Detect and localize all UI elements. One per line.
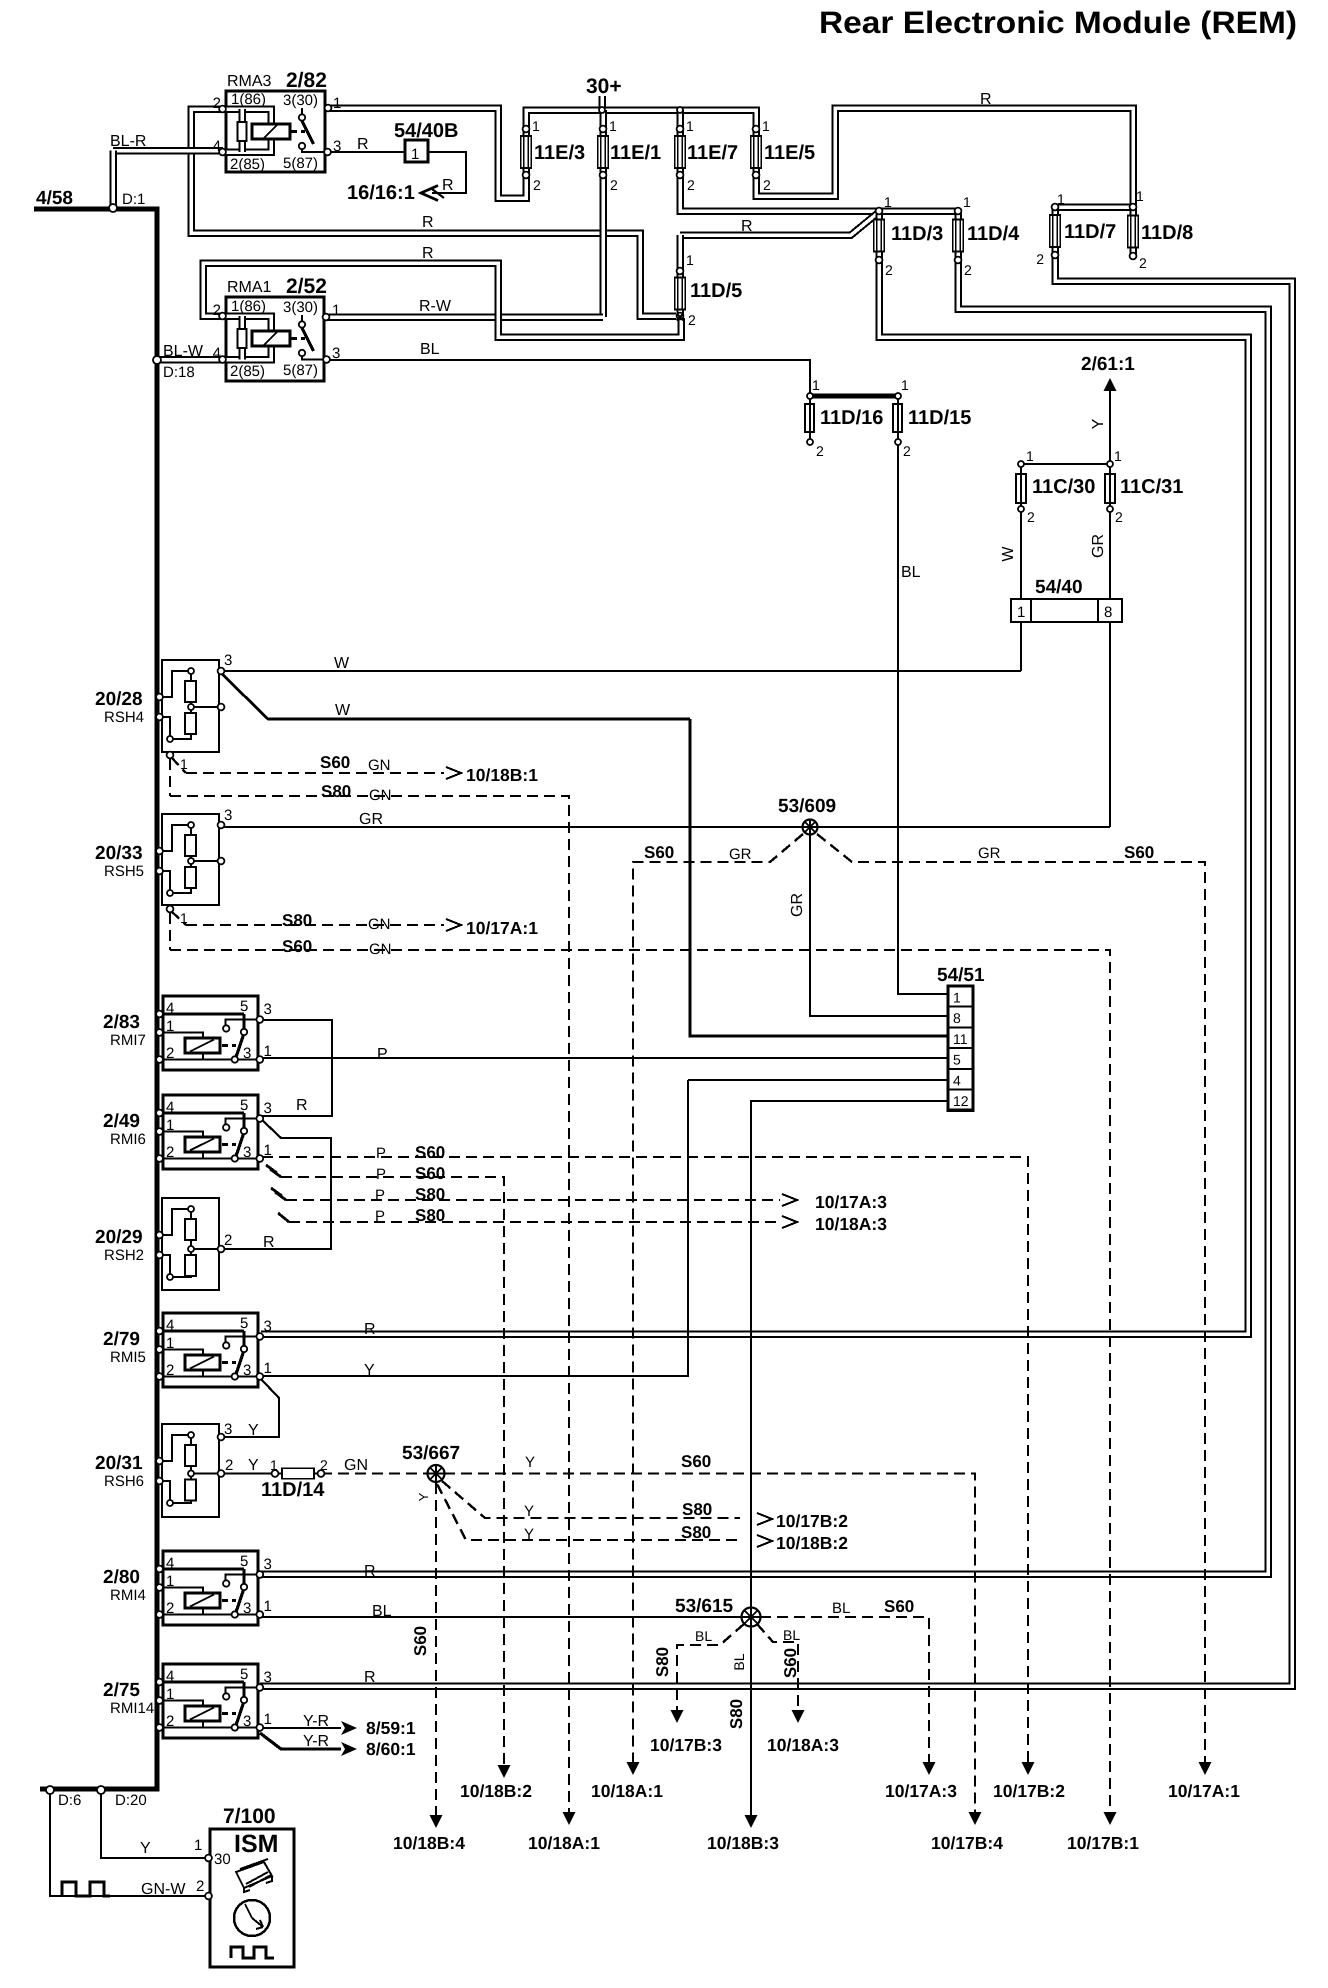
- svg-text:2: 2: [763, 177, 771, 193]
- svg-text:11E/1: 11E/1: [610, 142, 661, 164]
- svg-text:5(87): 5(87): [283, 362, 318, 379]
- svg-text:3(30): 3(30): [283, 299, 318, 316]
- wire dashed GN 11D/14 to 53/667: [321, 1472, 428, 1474]
- relay 2/82 RMA3 box: [226, 91, 325, 172]
- svg-text:S80: S80: [682, 1500, 712, 1519]
- svg-text:8/60:1: 8/60:1: [366, 1739, 416, 1759]
- wire GR below 54/40: [1109, 622, 1111, 827]
- module 7/100 ISM box: [210, 1829, 294, 1967]
- svg-text:2: 2: [225, 1457, 233, 1474]
- svg-text:R: R: [364, 1563, 376, 1580]
- svg-text:RMA3: RMA3: [227, 73, 272, 90]
- svg-text:1: 1: [884, 194, 892, 210]
- svg-text:R: R: [364, 1321, 376, 1338]
- svg-text:7/100: 7/100: [223, 1805, 276, 1828]
- svg-text:1: 1: [166, 1573, 174, 1590]
- wire GR 53/609 to 54/40 pin8: [810, 826, 1110, 828]
- svg-text:R: R: [364, 1669, 376, 1686]
- svg-text:1: 1: [963, 194, 971, 210]
- heater 20/28 pins: [188, 668, 194, 674]
- heater 20/28 resistors: [160, 671, 191, 697]
- svg-text:11D/14: 11D/14: [261, 1479, 325, 1501]
- svg-text:2: 2: [885, 262, 893, 278]
- node 53/615: [742, 1608, 761, 1627]
- relay 2/49 pins: [156, 1110, 163, 1117]
- svg-text:1: 1: [166, 1335, 174, 1352]
- wire 11D/7 through: [1051, 207, 1059, 256]
- svg-text:1: 1: [1057, 191, 1065, 207]
- wire Y to 2/61:1: [1109, 388, 1111, 464]
- svg-text:2: 2: [964, 262, 972, 278]
- wire dashed S80 GN from 20/28 pin1 drop: [169, 759, 171, 796]
- svg-text:3: 3: [224, 807, 232, 824]
- svg-text:11C/31: 11C/31: [1120, 476, 1183, 498]
- relay 2/52 pins: [219, 313, 226, 320]
- svg-text:1: 1: [264, 1711, 272, 1728]
- svg-text:1: 1: [264, 1043, 272, 1060]
- wire 11E/5 through: [752, 130, 760, 176]
- svg-text:1: 1: [609, 118, 617, 134]
- svg-text:1: 1: [270, 1457, 278, 1473]
- svg-text:10/18A:1: 10/18A:1: [528, 1833, 600, 1853]
- wire R-W relay 2/52 pin1: [326, 313, 603, 321]
- connector 54/51: [948, 986, 973, 1110]
- fuse 11D/3: [875, 221, 883, 251]
- svg-text:BL: BL: [832, 1600, 850, 1617]
- heater 20/33 RSH5 box: [162, 814, 219, 905]
- heater 20/31 RSH6 box: [162, 1424, 219, 1517]
- wire R 54/40B to 16/16:1: [428, 152, 466, 193]
- node D:6: [46, 1786, 54, 1794]
- svg-text:1: 1: [180, 910, 188, 926]
- svg-text:3(30): 3(30): [283, 92, 318, 109]
- svg-text:1: 1: [686, 118, 694, 134]
- svg-text:RMI6: RMI6: [110, 1131, 146, 1148]
- wire dashed P S60 from 2/49 pin1 to 10/17B:2: [262, 1157, 1028, 1762]
- svg-text:3: 3: [243, 1362, 251, 1379]
- wire R 2/49 to 20/29 pin2: [222, 1118, 331, 1249]
- wire BL-R horizontal: [113, 147, 223, 155]
- svg-text:2: 2: [687, 177, 695, 193]
- heater 20/29 RSH2 box: [162, 1198, 219, 1290]
- svg-text:1(86): 1(86): [231, 91, 266, 108]
- wire dashed P S80 from 2/49 to 10/17A:3: [271, 1188, 282, 1196]
- svg-text:P: P: [376, 1145, 386, 1162]
- svg-text:GR: GR: [1090, 534, 1107, 558]
- svg-text:5: 5: [240, 1666, 248, 1683]
- relay 2/49 switch: [226, 1119, 260, 1125]
- junction 11E/7 at bus: [677, 107, 683, 113]
- svg-text:10/17B:2: 10/17B:2: [993, 1781, 1065, 1801]
- connector 54/40: [1011, 599, 1122, 622]
- wire bar 11D/16 to 11D/15: [810, 394, 898, 399]
- svg-text:10/17B:1: 10/17B:1: [1067, 1833, 1139, 1853]
- junction 11D/5 pin2: [677, 314, 684, 321]
- wire R 11D/3 pin2 to relay 2/79: [261, 260, 1248, 1334]
- wire 11E/7 pin2 to 11D/3 11D/4: [680, 176, 958, 211]
- svg-text:1: 1: [264, 1598, 272, 1615]
- svg-text:2: 2: [1036, 251, 1044, 267]
- relay 2/79 pin4 row: [160, 1329, 244, 1332]
- wire dashed Y S60 from 53/667 to 10/17B:4: [444, 1474, 975, 1813]
- svg-text:10/17A:3: 10/17A:3: [815, 1192, 887, 1212]
- fuse 11D/16: [805, 404, 814, 432]
- fuse 11D/4: [954, 221, 962, 251]
- svg-text:W: W: [1000, 546, 1017, 562]
- svg-text:S60: S60: [415, 1164, 445, 1183]
- svg-text:2: 2: [224, 1232, 232, 1249]
- svg-text:53/667: 53/667: [402, 1443, 460, 1464]
- svg-text:54/40B: 54/40B: [394, 120, 459, 142]
- svg-text:5: 5: [240, 1553, 248, 1570]
- fuse 11E/7: [676, 137, 684, 167]
- svg-text:BL: BL: [783, 1627, 800, 1643]
- svg-text:3: 3: [264, 1556, 272, 1573]
- svg-text:D:20: D:20: [115, 1792, 147, 1809]
- wire W 11C/30 through: [1020, 464, 1022, 599]
- svg-text:GN-W: GN-W: [141, 1881, 186, 1898]
- svg-text:1: 1: [901, 377, 909, 393]
- svg-text:11E/7: 11E/7: [687, 142, 738, 164]
- svg-text:20/31: 20/31: [95, 1453, 143, 1474]
- fuse 11D/8: [1129, 217, 1137, 247]
- wire R 11D/4 pin2 to relay 2/80: [260, 260, 1268, 1574]
- wire dashed BL S80 from 53/615 to 10/17B:3: [677, 1624, 744, 1710]
- svg-text:11D/3: 11D/3: [891, 223, 943, 245]
- wire R 11D/5 pin1 riser: [680, 212, 879, 235]
- svg-text:W: W: [334, 655, 350, 672]
- svg-text:1: 1: [812, 377, 820, 393]
- svg-text:S60: S60: [320, 753, 350, 772]
- fuse 11E/3: [522, 137, 530, 167]
- svg-text:12: 12: [953, 1093, 969, 1109]
- relay 2/49 pin4 row: [160, 1111, 244, 1114]
- svg-text:BL: BL: [901, 564, 921, 581]
- svg-text:11D/7: 11D/7: [1064, 221, 1116, 243]
- svg-text:2: 2: [1027, 509, 1035, 525]
- svg-text:4: 4: [166, 1099, 174, 1116]
- svg-text:RSH2: RSH2: [104, 1247, 144, 1264]
- wire W below 54/40: [1020, 622, 1022, 671]
- svg-text:R: R: [422, 214, 434, 231]
- svg-text:53/609: 53/609: [778, 796, 836, 817]
- svg-text:1: 1: [333, 95, 341, 112]
- svg-text:Rear Electronic Module (REM): Rear Electronic Module (REM): [819, 5, 1297, 40]
- svg-text:D:6: D:6: [58, 1792, 81, 1809]
- svg-text:8: 8: [953, 1010, 961, 1026]
- wire 11E/1 pin2 down: [599, 176, 607, 317]
- svg-text:3: 3: [264, 1669, 272, 1686]
- wire 11E/3 through: [522, 130, 530, 176]
- svg-text:Y: Y: [416, 1492, 431, 1501]
- svg-text:10/17B:2: 10/17B:2: [776, 1511, 848, 1531]
- relay 2/79 pin2 row: [160, 1375, 259, 1377]
- svg-text:S60: S60: [415, 1143, 445, 1162]
- relay 2/49 coil: [160, 1132, 203, 1138]
- svg-text:10/18B:2: 10/18B:2: [776, 1533, 848, 1553]
- svg-text:P: P: [377, 1046, 388, 1063]
- relay 2/83 coil: [160, 1033, 203, 1039]
- svg-text:3: 3: [264, 1001, 272, 1018]
- svg-text:11D/8: 11D/8: [1141, 222, 1193, 244]
- svg-text:R: R: [741, 218, 753, 235]
- svg-text:10/18A:3: 10/18A:3: [767, 1735, 839, 1755]
- svg-text:S80: S80: [415, 1206, 445, 1225]
- heater 20/28 pin1: [167, 752, 174, 759]
- svg-text:3: 3: [333, 138, 341, 155]
- wire 4/58 feed: [34, 209, 157, 1789]
- svg-text:Y: Y: [248, 1457, 259, 1474]
- wire 11D/7 pin1 link: [1055, 203, 1133, 211]
- svg-text:1: 1: [411, 146, 419, 163]
- fuse 11D/7: [1051, 216, 1059, 246]
- svg-text:S60: S60: [681, 1452, 711, 1471]
- relay 2/80 switch: [226, 1575, 260, 1581]
- svg-text:P: P: [375, 1208, 385, 1225]
- svg-text:2: 2: [610, 177, 618, 193]
- wire bus to 11E/7: [676, 110, 684, 176]
- svg-text:5: 5: [953, 1052, 961, 1068]
- svg-text:S80: S80: [282, 911, 312, 930]
- wire dashed Y S80 from 53/667 to 10/17B:2: [442, 1481, 740, 1518]
- heater 20/33 resistors: [160, 825, 191, 851]
- svg-text:Y: Y: [364, 1362, 375, 1379]
- svg-text:GN: GN: [369, 787, 392, 804]
- svg-text:2: 2: [903, 443, 911, 459]
- wire W second from 20/28 pin3: [221, 673, 690, 719]
- wire BL-R drop to D:1: [109, 151, 117, 208]
- svg-text:10/17B:3: 10/17B:3: [650, 1735, 722, 1755]
- svg-text:10/18A:3: 10/18A:3: [815, 1214, 887, 1234]
- heater 20/29 pins: [188, 1206, 194, 1212]
- relay 2/80 pins: [156, 1566, 163, 1573]
- svg-text:R: R: [296, 1097, 308, 1114]
- svg-text:GN: GN: [344, 1457, 368, 1474]
- svg-text:1: 1: [166, 1117, 174, 1134]
- svg-text:1: 1: [166, 1018, 174, 1035]
- wire R relay 2/83 pin3 to 2/49 pin3: [260, 1020, 332, 1116]
- relay 2/79 coil: [160, 1350, 203, 1356]
- svg-text:GR: GR: [729, 846, 752, 863]
- wire dashed BL S60 from 53/615 to 10/17A:3: [760, 1617, 929, 1762]
- ISM cartridge icon: [236, 1859, 272, 1892]
- svg-text:R: R: [422, 245, 434, 262]
- svg-text:4: 4: [166, 1668, 174, 1685]
- svg-text:S60: S60: [644, 843, 674, 862]
- svg-text:RMI7: RMI7: [110, 1032, 146, 1049]
- wire R relay 2/82 pin1 to 11E/3 pin2: [329, 108, 526, 198]
- svg-text:3: 3: [264, 1100, 272, 1117]
- svg-text:4: 4: [166, 1317, 174, 1334]
- svg-text:20/33: 20/33: [95, 843, 143, 864]
- svg-text:11D/5: 11D/5: [690, 280, 742, 302]
- wire dashed P S60 from 2/49 to 10/18B:2: [266, 1165, 277, 1173]
- svg-text:2/61:1: 2/61:1: [1081, 354, 1135, 375]
- wire dashed Y S80 from 53/667 to 10/18B:2: [437, 1484, 742, 1540]
- svg-text:20/29: 20/29: [95, 1227, 143, 1248]
- svg-text:1: 1: [686, 252, 694, 268]
- node D:20: [97, 1786, 105, 1794]
- relay 2/79 RMI5 box: [163, 1313, 258, 1387]
- wire Y relay 2/79 pin1: [261, 1080, 688, 1376]
- svg-text:4: 4: [953, 1072, 961, 1088]
- relay 2/80 pin4 row: [160, 1567, 244, 1570]
- svg-text:1: 1: [532, 118, 540, 134]
- svg-text:Y: Y: [524, 1503, 534, 1520]
- relay 2/75 pin2 row: [160, 1726, 259, 1728]
- svg-text:3: 3: [264, 1318, 272, 1335]
- svg-text:2: 2: [196, 1878, 204, 1895]
- wire dashed P S80 from 2/49 to 10/18A:3: [278, 1213, 289, 1222]
- svg-text:2: 2: [166, 1600, 174, 1617]
- svg-text:BL: BL: [420, 341, 440, 358]
- svg-text:5: 5: [240, 998, 248, 1015]
- wire 11D/14 through: [275, 1472, 321, 1474]
- svg-text:10/18B:1: 10/18B:1: [466, 765, 538, 785]
- wire Y D:20 to ISM pin1: [101, 1791, 208, 1858]
- svg-text:Y: Y: [140, 1840, 151, 1857]
- svg-text:1: 1: [1017, 604, 1025, 621]
- svg-text:5: 5: [240, 1097, 248, 1114]
- wire 11D/3 through: [875, 211, 883, 260]
- svg-text:BL: BL: [731, 1653, 747, 1670]
- svg-text:W: W: [335, 702, 351, 719]
- junction 30+ at bus: [599, 107, 605, 113]
- svg-text:S60: S60: [884, 1597, 914, 1616]
- svg-text:GN: GN: [369, 941, 392, 958]
- svg-text:2/49: 2/49: [103, 1111, 140, 1132]
- svg-text:16/16:1: 16/16:1: [347, 182, 415, 204]
- square wave symbol on GN-W wire: [62, 1882, 110, 1896]
- wire dashed from 53/667 down to 10/18B:4: [435, 1483, 437, 1815]
- svg-text:5: 5: [240, 1315, 248, 1332]
- svg-text:1: 1: [1026, 448, 1034, 464]
- svg-text:5(87): 5(87): [283, 155, 318, 172]
- node 53/609: [803, 820, 818, 835]
- node 53/667: [428, 1465, 445, 1482]
- wire dashed S80 GN to 10/18A:1: [170, 796, 569, 1812]
- wire R 11E/5 pin2 to 11D/8: [756, 108, 1133, 207]
- svg-text:3: 3: [332, 345, 340, 362]
- relay 2/79 pins: [156, 1328, 163, 1335]
- wire dashed S60 GN to 10/17B:1: [170, 950, 1110, 1812]
- heater 20/29 resistors: [160, 1209, 191, 1235]
- svg-text:D:18: D:18: [163, 364, 195, 381]
- svg-text:GR: GR: [789, 893, 806, 917]
- svg-text:S80: S80: [681, 1523, 711, 1542]
- relay 2/83 RMI7 box: [163, 996, 258, 1070]
- svg-text:S60: S60: [282, 937, 312, 956]
- svg-text:R: R: [442, 177, 454, 194]
- svg-text:Y: Y: [525, 1454, 535, 1471]
- svg-text:54/51: 54/51: [937, 965, 985, 986]
- wire dashed S80 GN from 20/33 pin1: [171, 911, 186, 925]
- wire dashed S60 GR from 53/609 right to 10/17A:1: [817, 834, 1205, 1762]
- svg-text:30+: 30+: [586, 75, 622, 98]
- svg-text:1: 1: [194, 1837, 202, 1854]
- svg-text:10/17A:3: 10/17A:3: [885, 1781, 957, 1801]
- svg-text:S80: S80: [653, 1647, 672, 1677]
- svg-text:4: 4: [213, 138, 221, 155]
- svg-text:11D/16: 11D/16: [820, 407, 883, 429]
- wire Y 2/79 to 20/31 pin3: [221, 1379, 279, 1437]
- svg-text:2: 2: [166, 1362, 174, 1379]
- svg-text:2: 2: [166, 1713, 174, 1730]
- svg-text:4/58: 4/58: [36, 188, 73, 209]
- wire GN-W D:6 to ISM pin2: [50, 1791, 208, 1896]
- wire BL 11D/15 pin2 to 54/51 pin1: [898, 442, 948, 994]
- svg-text:1: 1: [1114, 448, 1122, 464]
- svg-text:2: 2: [213, 302, 221, 319]
- svg-text:1: 1: [953, 990, 961, 1006]
- svg-text:2: 2: [1115, 509, 1123, 525]
- svg-text:53/615: 53/615: [675, 1596, 734, 1617]
- svg-text:2/83: 2/83: [103, 1012, 140, 1033]
- svg-text:10/18B:3: 10/18B:3: [707, 1833, 779, 1853]
- svg-text:3: 3: [224, 652, 232, 669]
- relay 2/49 RMI6 box: [163, 1095, 258, 1169]
- svg-text:10/18B:2: 10/18B:2: [460, 1781, 532, 1801]
- svg-text:BL-W: BL-W: [163, 343, 204, 360]
- relay 2/52 internals: [226, 316, 271, 333]
- svg-text:RSH4: RSH4: [104, 709, 144, 726]
- svg-text:2: 2: [320, 1457, 328, 1473]
- svg-text:8/59:1: 8/59:1: [366, 1718, 416, 1738]
- svg-text:ISM: ISM: [234, 1830, 278, 1858]
- svg-text:11E/3: 11E/3: [534, 142, 585, 164]
- svg-text:R: R: [980, 91, 992, 108]
- wire BL-W: [157, 356, 223, 364]
- svg-text:30: 30: [214, 1851, 231, 1868]
- svg-text:1: 1: [762, 118, 770, 134]
- svg-text:2/75: 2/75: [103, 1680, 140, 1701]
- svg-text:2: 2: [213, 95, 221, 112]
- svg-text:2(85): 2(85): [230, 156, 265, 173]
- svg-text:11: 11: [953, 1031, 968, 1047]
- svg-text:RMA1: RMA1: [227, 279, 272, 296]
- wire S80 through 53/615 down: [750, 1625, 752, 1818]
- svg-text:RMI14: RMI14: [110, 1700, 154, 1717]
- svg-text:10/17A:1: 10/17A:1: [466, 918, 538, 938]
- relay 2/52 RMA1 box: [226, 297, 324, 381]
- svg-text:BL: BL: [695, 1628, 712, 1644]
- connector 54/40B: [405, 140, 428, 162]
- svg-text:10/17B:4: 10/17B:4: [931, 1833, 1003, 1853]
- svg-text:8: 8: [1104, 604, 1112, 621]
- wire GR 20/33 pin3 to 53/609: [221, 826, 810, 828]
- svg-text:Y-R: Y-R: [303, 1713, 329, 1730]
- svg-text:11C/30: 11C/30: [1032, 476, 1095, 498]
- svg-text:BL-R: BL-R: [110, 133, 146, 150]
- svg-text:Y-R: Y-R: [303, 1733, 329, 1750]
- svg-text:S80: S80: [415, 1185, 445, 1204]
- svg-text:R: R: [263, 1234, 275, 1251]
- fuse 11E/5: [752, 137, 760, 167]
- svg-text:RMI4: RMI4: [110, 1587, 146, 1604]
- svg-text:2(85): 2(85): [230, 363, 265, 380]
- wire dashed S60 GR from 53/609 left to 10/18A:1: [633, 834, 803, 1762]
- wire R 11D/7 pin2 to relay 2/75: [260, 256, 1292, 1686]
- ISM pins: [205, 1855, 212, 1862]
- svg-text:4: 4: [166, 1000, 174, 1017]
- heater 20/31 resistors: [160, 1435, 191, 1461]
- relay 2/83 pin4 row: [160, 1012, 244, 1015]
- relay 2/83 pins: [156, 1011, 163, 1018]
- node D:18: [153, 356, 161, 364]
- svg-text:GR: GR: [359, 811, 383, 828]
- wire dashed S60 GN from 20/28 pin1: [171, 757, 186, 773]
- wire 11D/8 through: [1129, 207, 1137, 256]
